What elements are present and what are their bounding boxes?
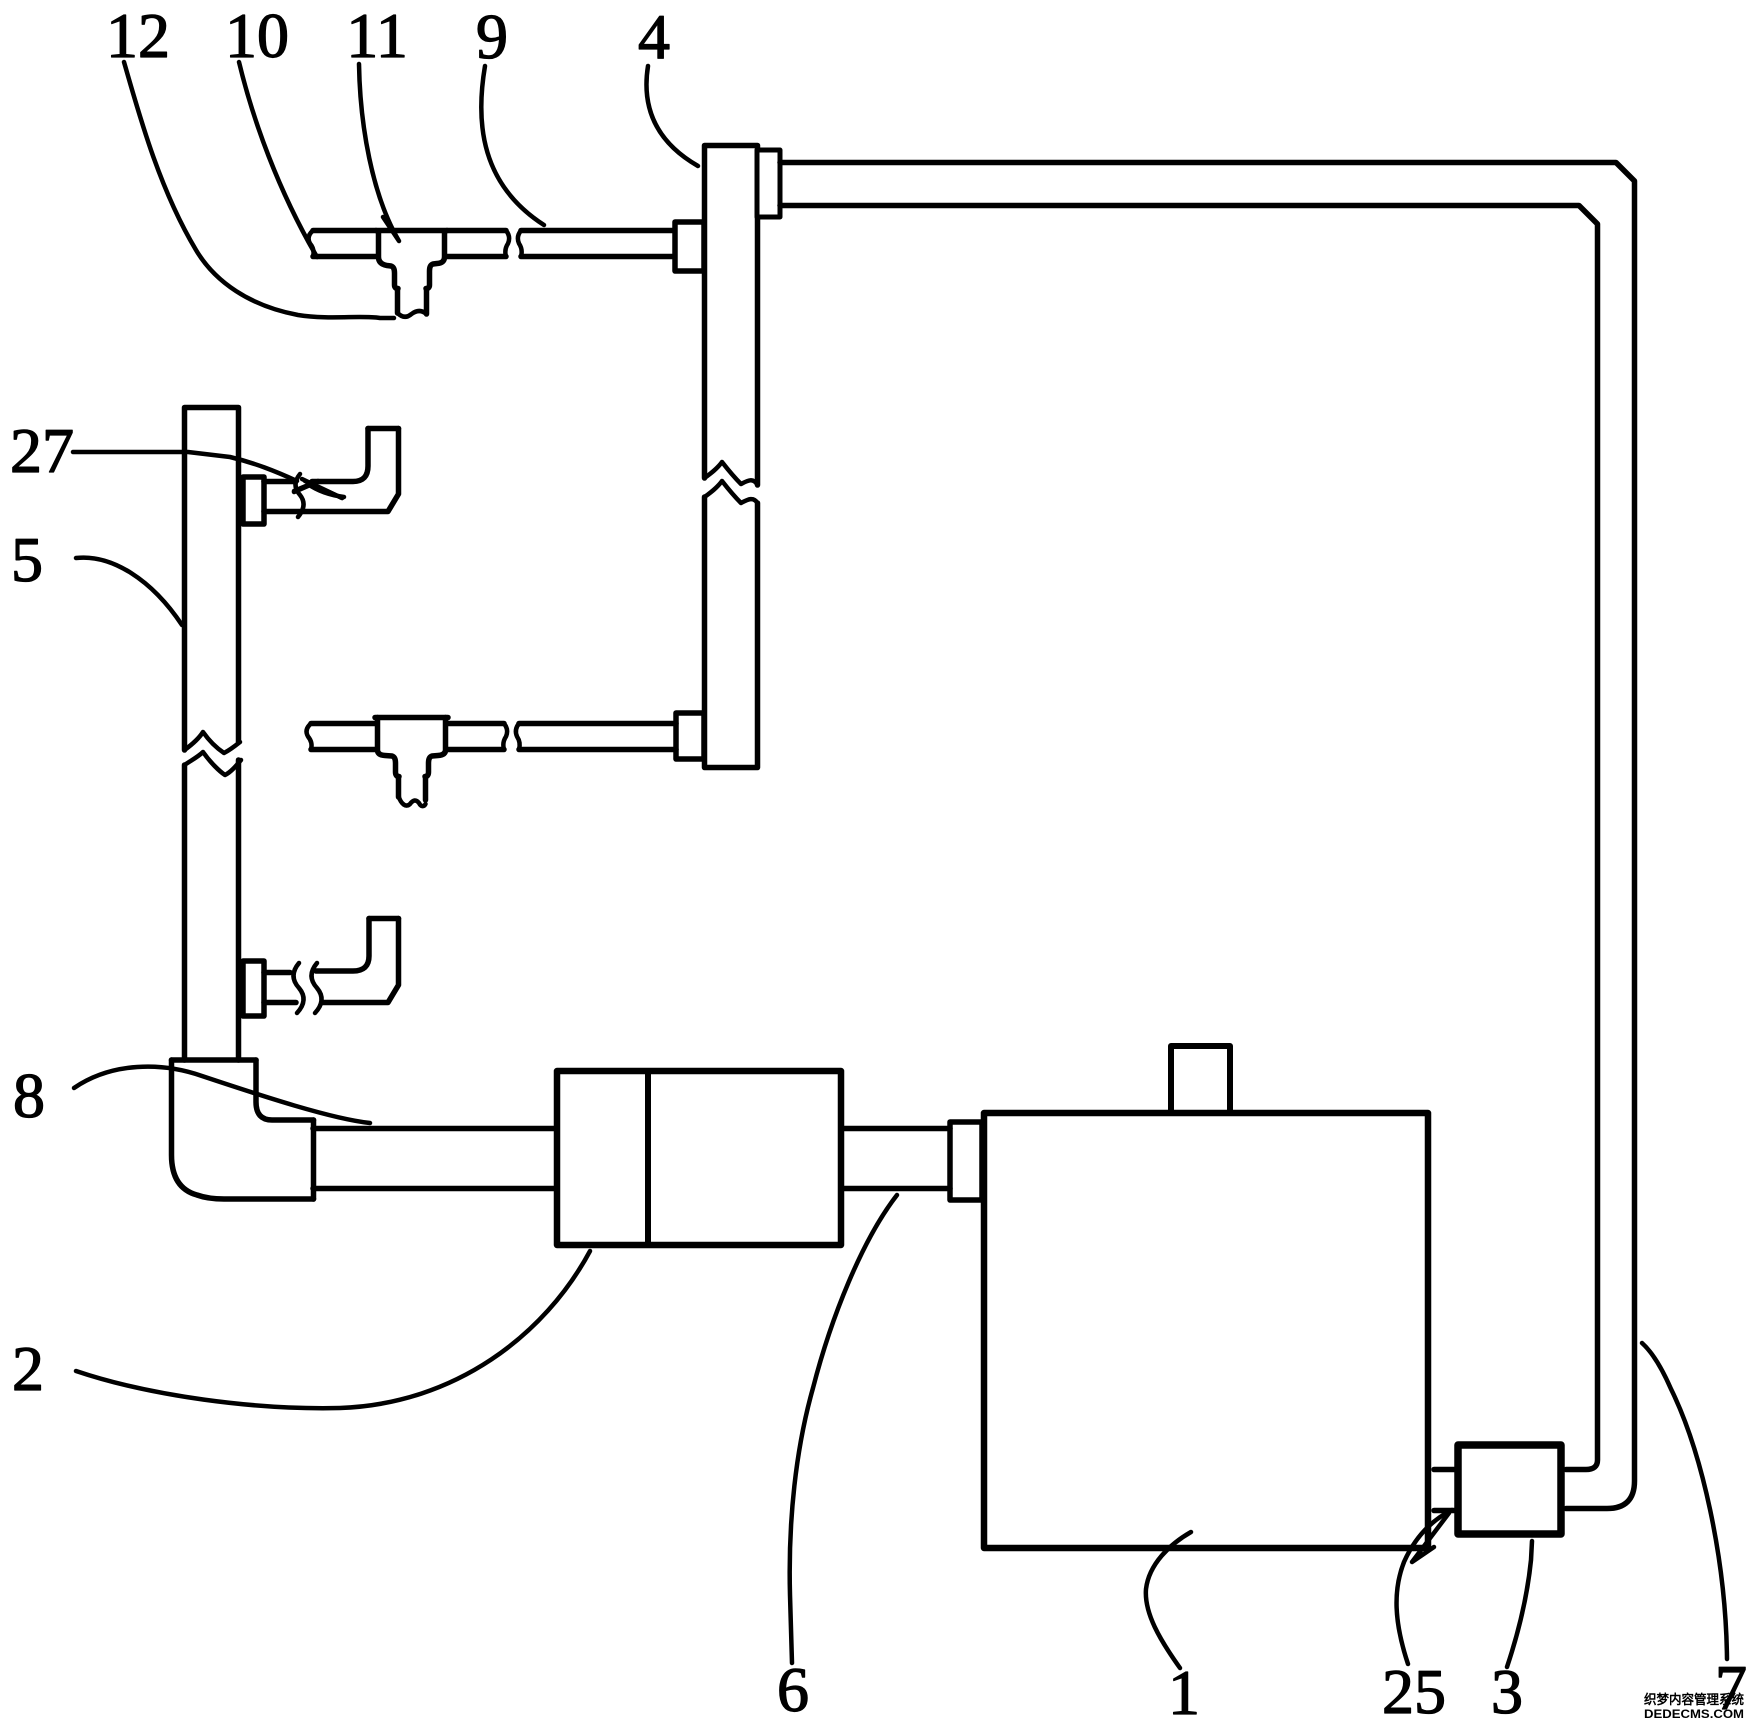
leader line 6 (790, 1195, 897, 1663)
leader line 1 (1146, 1532, 1191, 1668)
lower pipe assembly long segment (516, 724, 676, 750)
pipe muffler to tank (844, 1129, 950, 1189)
svg-text:3: 3 (1491, 1656, 1523, 1727)
svg-text:6: 6 (777, 1654, 809, 1725)
faucet 27 upper break scribble (294, 474, 344, 517)
elbow 8 (172, 1060, 314, 1199)
faucet lower body (264, 919, 399, 1003)
pipe 5 vertical lower section (185, 752, 242, 1060)
lower pipe assembly right segment (448, 724, 507, 750)
leader line 8 (74, 1067, 370, 1123)
collar at tank inlet (950, 1122, 982, 1200)
svg-text:5: 5 (11, 524, 43, 595)
svg-text:9: 9 (476, 1, 508, 72)
leader line 12 (124, 62, 394, 318)
lower pipe assembly left segment (307, 724, 375, 750)
box 3 flow unit (1458, 1445, 1561, 1534)
svg-text:2: 2 (12, 1333, 44, 1404)
top horizontal pipe and right riser pipe 7 inner line (780, 206, 1598, 1470)
pipe elbow to muffler (313, 1129, 554, 1189)
leader line 7 (1642, 1343, 1727, 1659)
upper pipe assembly right segment (447, 231, 509, 257)
svg-text:25: 25 (1382, 1656, 1446, 1727)
faucet 27 upper collar (243, 477, 264, 524)
leader line 3 (1507, 1541, 1532, 1667)
pipe 5 vertical upper section (185, 408, 241, 754)
upper pipe assembly long segment 9 (518, 231, 673, 257)
muffler 2 divider (645, 1071, 651, 1245)
svg-text:4: 4 (638, 1, 670, 72)
collar at pipe 4 lower (676, 713, 704, 759)
leader line 9 (481, 66, 544, 225)
tank 1 (984, 1113, 1428, 1548)
svg-text:11: 11 (346, 0, 408, 71)
svg-text:27: 27 (10, 415, 74, 486)
collar on pipe 4 top right (757, 150, 780, 217)
leader line 10 (239, 62, 317, 257)
leader line 4 (646, 66, 698, 166)
collar 10 at pipe 4 upper (675, 222, 704, 271)
leader line 25 (1397, 1510, 1452, 1664)
leader line 11 (359, 64, 399, 241)
leader line 5 (76, 558, 182, 625)
svg-text:织梦内容管理系统: 织梦内容管理系统 (1644, 1692, 1744, 1707)
upper pipe tee 11 (376, 231, 447, 317)
faucet 27 upper body (264, 429, 399, 512)
tank top port (1171, 1046, 1230, 1112)
svg-text:10: 10 (225, 0, 289, 71)
stub pipe tank to box 3 (1434, 1470, 1456, 1511)
leader line 27 (73, 452, 297, 481)
svg-text:12: 12 (106, 0, 170, 71)
muffler 2 body (557, 1071, 841, 1245)
svg-text:8: 8 (13, 1060, 45, 1131)
svg-text:1: 1 (1168, 1657, 1200, 1727)
faucet lower collar (243, 961, 264, 1016)
lower pipe tee (375, 718, 448, 807)
pipe 4 vertical riser lower section (705, 481, 758, 768)
top horizontal pipe and right riser pipe 7 outer line (780, 163, 1635, 1509)
leader line 2 (76, 1251, 590, 1408)
pipe 4 vertical riser upper section (705, 146, 758, 486)
upper pipe assembly left segment (309, 231, 376, 257)
faucet lower break marks (294, 963, 322, 1013)
svg-text:DEDECMS.COM: DEDECMS.COM (1644, 1707, 1744, 1721)
